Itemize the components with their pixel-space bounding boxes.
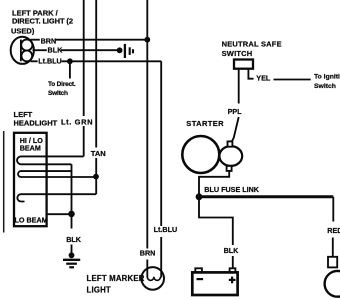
node ground junction	[68, 211, 75, 218]
svg-text:To Direct.: To Direct.	[48, 81, 76, 88]
ground symbol	[63, 252, 80, 267]
wire YEL from switch	[248, 69, 310, 80]
solenoid top terminal	[228, 141, 233, 146]
wire BRN vertical from top to left marker light	[146, 0, 148, 278]
battery positive terminal post	[230, 268, 236, 272]
svg-text:Switch: Switch	[48, 90, 68, 97]
wire TAN vertical from top	[95, 0, 97, 175]
svg-text:To Ignition: To Ignition	[314, 73, 340, 80]
battery minus sign	[197, 278, 204, 280]
svg-text:LEFT MARKER: LEFT MARKER	[87, 274, 145, 283]
svg-text:BRN: BRN	[41, 37, 57, 46]
svg-text:NEUTRAL SAFE: NEUTRAL SAFE	[222, 40, 282, 49]
wire Lt.BLU from park lamp	[31, 61, 162, 277]
svg-text:HEADLIGHT: HEADLIGHT	[14, 118, 58, 127]
svg-text:BLK: BLK	[48, 46, 64, 55]
wire solenoid to fuse link node	[199, 171, 229, 194]
left edge cut-off line	[3, 131, 5, 233]
svg-text:LO BEAM: LO BEAM	[15, 215, 48, 224]
battery negative terminal post	[195, 268, 202, 272]
node junction BRN x vertical	[144, 37, 150, 43]
svg-text:BLU FUSE LINK: BLU FUSE LINK	[204, 185, 260, 194]
svg-text:STARTER: STARTER	[186, 119, 224, 128]
svg-text:Switch: Switch	[314, 83, 336, 90]
wire BLK battery feed	[199, 197, 233, 268]
svg-text:SWITCH: SWITCH	[222, 49, 253, 58]
wire TAN dot to lo beam filament	[95, 177, 97, 195]
svg-text:BEAM: BEAM	[20, 143, 41, 152]
wire Lt.GRN vertical from top	[83, 0, 85, 156]
lamp left park / direct. light	[11, 37, 34, 64]
neutral safe switch connector	[234, 60, 253, 69]
svg-text:Lt.BLU: Lt.BLU	[154, 225, 178, 234]
battery	[192, 272, 237, 295]
solenoid bottom terminal	[227, 166, 232, 171]
svg-text:RED: RED	[327, 226, 340, 235]
wire BLK from park lamp	[33, 49, 120, 51]
svg-text:BLK: BLK	[66, 235, 82, 244]
wire stub to direct switch	[69, 61, 71, 78]
svg-text:Lt.BLU: Lt.BLU	[38, 57, 62, 66]
label NEUTRAL SAFE SWITCH	[222, 40, 282, 58]
label To Direct. Switch	[48, 81, 76, 97]
filament mid (F2)	[18, 171, 96, 177]
starter motor circle	[182, 136, 219, 173]
svg-text:TAN: TAN	[91, 149, 106, 158]
wire BRN from park lamp	[31, 39, 148, 41]
svg-text:DIRECT. LIGHT (2: DIRECT. LIGHT (2	[12, 16, 73, 25]
wire RED down right side	[332, 197, 335, 257]
label LEFT HEADLIGHT	[14, 110, 58, 128]
svg-text:LIGHT: LIGHT	[87, 285, 111, 294]
node TAN junction	[93, 174, 99, 180]
svg-text:YEL: YEL	[256, 74, 271, 83]
headlight box	[14, 133, 47, 226]
svg-text:BLK: BLK	[224, 246, 240, 255]
ground chassis bars (right-pointing)	[117, 44, 133, 58]
wire PPL from switch	[232, 69, 239, 142]
wire blu fuse link	[199, 195, 333, 198]
battery plus sign	[229, 277, 236, 284]
node junction Lt.BLU to direct switch	[67, 58, 73, 64]
svg-text:USED): USED)	[11, 26, 35, 35]
svg-text:BRN: BRN	[140, 249, 156, 258]
label LEFT MARKER LIGHT	[87, 274, 145, 294]
component terminal rect bottom right	[328, 257, 337, 268]
filament lo beam (F3)	[17, 194, 96, 201]
label To Ignition Switch	[314, 73, 340, 90]
lamp left marker light	[141, 267, 164, 290]
node fuse link junction	[196, 193, 203, 200]
filament omega in marker light	[147, 277, 160, 281]
component circle bottom right (clipped)	[325, 271, 340, 297]
svg-text:Lt. GRN: Lt. GRN	[61, 118, 93, 127]
label LEFT PARK / DIRECT. LIGHT (2 USED)	[11, 8, 73, 35]
starter solenoid	[219, 146, 242, 166]
filament hi beam (F1)	[17, 156, 84, 164]
svg-text:PPL: PPL	[228, 107, 243, 116]
label HI / LO BEAM	[20, 136, 44, 152]
wire box edge to ground junction	[47, 213, 72, 215]
wire headlight ground vertical	[71, 164, 73, 255]
